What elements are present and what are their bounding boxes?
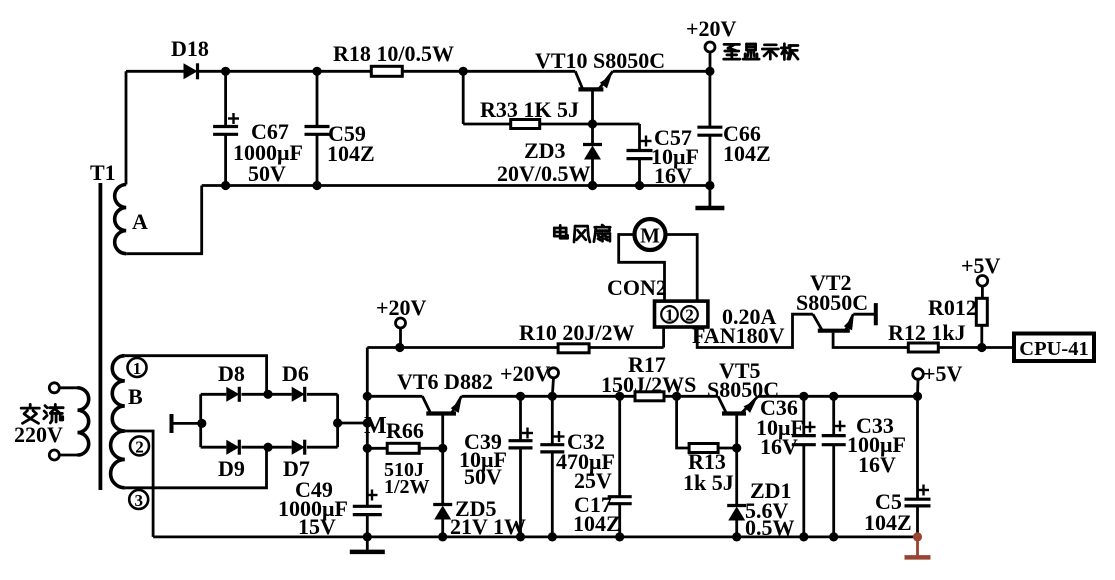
svg-text:+5V: +5V: [961, 253, 1001, 278]
svg-text:1/2W: 1/2W: [384, 476, 430, 498]
svg-text:R10 20J/2W: R10 20J/2W: [519, 320, 635, 345]
svg-text:+20V: +20V: [686, 16, 737, 41]
svg-text:25V: 25V: [574, 468, 612, 493]
svg-text:A: A: [132, 209, 148, 234]
svg-text:150J/2WS: 150J/2WS: [601, 372, 696, 397]
svg-text:50V: 50V: [248, 161, 286, 186]
svg-text:D6: D6: [282, 361, 309, 386]
svg-text:1: 1: [133, 359, 142, 378]
svg-text:20V/0.5W: 20V/0.5W: [497, 161, 591, 186]
svg-text:104Z: 104Z: [327, 141, 375, 166]
svg-text:M: M: [640, 224, 660, 248]
svg-text:1k 5J: 1k 5J: [683, 470, 734, 495]
svg-text:21V 1W: 21V 1W: [450, 514, 526, 539]
svg-text:R012: R012: [928, 295, 977, 320]
svg-text:S8050C: S8050C: [796, 290, 868, 315]
svg-text:+20V: +20V: [376, 295, 427, 320]
svg-text:2: 2: [685, 306, 694, 325]
svg-text:0.5W: 0.5W: [745, 515, 795, 540]
svg-text:104Z: 104Z: [573, 511, 621, 536]
svg-text:T1: T1: [90, 160, 116, 185]
svg-text:50V: 50V: [464, 464, 502, 489]
svg-text:2: 2: [135, 437, 144, 456]
svg-text:R66: R66: [386, 418, 424, 443]
svg-text:CPU-41: CPU-41: [1019, 338, 1088, 360]
svg-text:D18: D18: [171, 36, 209, 61]
svg-text:VT6 D882: VT6 D882: [397, 369, 493, 394]
svg-text:+5V: +5V: [923, 361, 963, 386]
svg-text:D9: D9: [218, 456, 245, 481]
svg-text:1: 1: [665, 306, 674, 325]
svg-text:16V: 16V: [654, 163, 692, 188]
svg-text:VT10 S8050C: VT10 S8050C: [535, 48, 665, 73]
svg-text:15V: 15V: [298, 514, 336, 539]
svg-text:3: 3: [134, 491, 143, 510]
svg-text:104Z: 104Z: [723, 141, 771, 166]
svg-text:R12 1kJ: R12 1kJ: [888, 320, 966, 345]
svg-text:D8: D8: [218, 361, 245, 386]
svg-text:CON2: CON2: [607, 275, 667, 300]
svg-text:R33 1K 5J: R33 1K 5J: [480, 97, 579, 122]
svg-text:FAN180V: FAN180V: [692, 323, 785, 348]
svg-text:M: M: [364, 413, 387, 439]
svg-text:R18 10/0.5W: R18 10/0.5W: [333, 41, 454, 66]
svg-text:ZD3: ZD3: [524, 138, 566, 163]
svg-text:104Z: 104Z: [864, 510, 912, 535]
svg-text:16V: 16V: [760, 434, 798, 459]
svg-text:220V: 220V: [14, 422, 63, 447]
svg-text:16V: 16V: [858, 452, 896, 477]
svg-text:+20V: +20V: [500, 361, 551, 386]
svg-text:B: B: [128, 384, 143, 409]
